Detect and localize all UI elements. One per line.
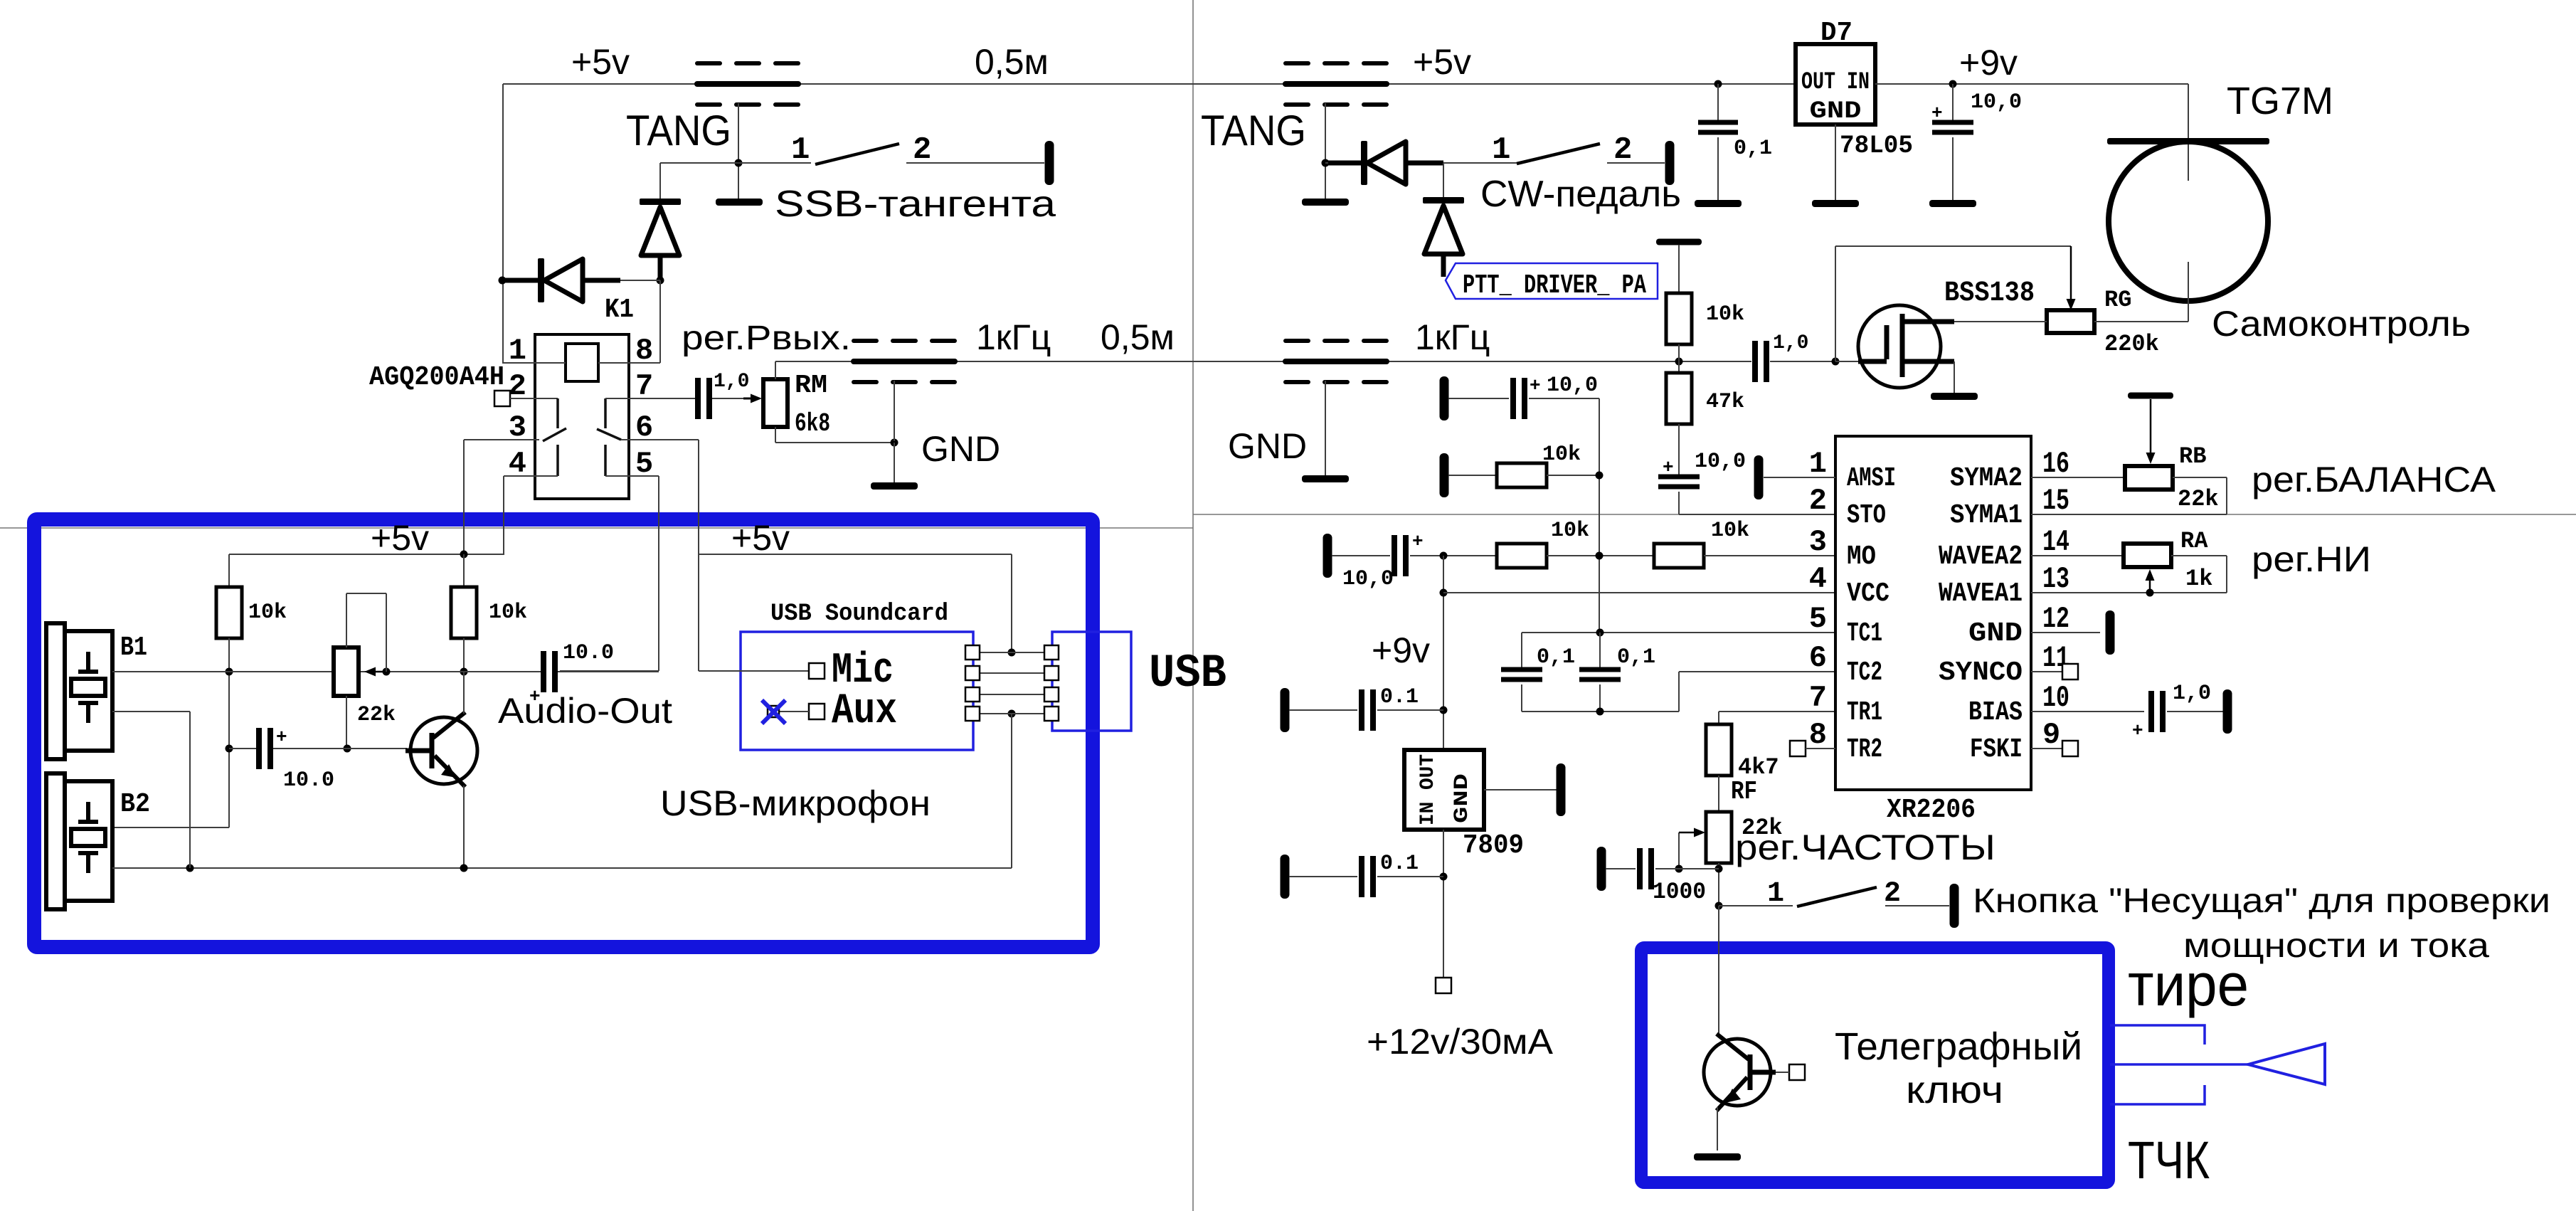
svg-text:D7: D7 [1820,18,1853,48]
svg-text:2: 2 [913,132,931,168]
svg-text:10,0: 10,0 [1342,567,1394,591]
svg-text:ТЧК: ТЧК [2128,1131,2210,1190]
svg-text:B2: B2 [120,789,150,820]
svg-text:RM: RM [795,371,827,400]
svg-text:13: 13 [2042,562,2069,596]
svg-text:CW-педаль: CW-педаль [1480,174,1681,215]
svg-text:10k: 10k [489,601,527,625]
svg-text:6k8: 6k8 [795,409,830,438]
svg-text:1: 1 [1809,447,1827,481]
svg-text:2: 2 [1809,484,1827,518]
svg-text:8: 8 [635,334,653,368]
svg-text:SYNCO: SYNCO [1939,657,2023,688]
svg-text:0,5м: 0,5м [1101,317,1175,357]
svg-text:RF: RF [1731,777,1757,806]
svg-text:рег.НИ: рег.НИ [2252,539,2371,579]
svg-text:0,1: 0,1 [1537,645,1575,670]
svg-text:+: + [2132,720,2143,741]
svg-text:10.0: 10.0 [283,768,334,793]
svg-text:GND: GND [1968,618,2023,649]
svg-text:9: 9 [2042,718,2060,752]
svg-text:10,0: 10,0 [1971,90,2022,115]
svg-text:10k: 10k [1706,302,1744,327]
svg-text:1,0: 1,0 [2173,682,2211,706]
svg-text:1: 1 [509,334,526,368]
svg-text:GND: GND [1810,98,1862,125]
svg-text:RG: RG [2104,287,2131,313]
svg-text:8: 8 [1809,718,1827,752]
svg-text:1кГц: 1кГц [976,317,1051,357]
svg-text:WAVEA2: WAVEA2 [1939,541,2023,572]
svg-text:5: 5 [1809,602,1827,636]
svg-text:Aux: Aux [832,687,897,736]
svg-text:ключ: ключ [1906,1069,2003,1111]
svg-text:+9v: +9v [1959,43,2018,83]
svg-text:USB Soundcard: USB Soundcard [770,601,948,628]
svg-text:+5v: +5v [1413,42,1471,82]
svg-text:GND: GND [1451,773,1473,823]
svg-text:0.1: 0.1 [1380,852,1419,876]
svg-text:MO: MO [1847,541,1876,572]
svg-text:12: 12 [2042,602,2069,636]
svg-text:IN OUT: IN OUT [1417,754,1439,825]
svg-text:0,5м: 0,5м [975,42,1049,82]
svg-text:B1: B1 [120,633,147,663]
svg-text:рег.ЧАСТОТЫ: рег.ЧАСТОТЫ [1735,827,1995,867]
svg-text:10,0: 10,0 [1547,374,1598,398]
svg-text:10: 10 [2042,681,2069,715]
svg-text:16: 16 [2042,447,2069,481]
svg-text:рег.Рвых.: рег.Рвых. [682,319,851,357]
svg-text:+: + [1530,375,1541,396]
svg-text:0.1: 0.1 [1380,685,1419,709]
svg-text:15: 15 [2042,484,2069,518]
svg-text:BSS138: BSS138 [1944,277,2035,310]
svg-text:+12v/30мА: +12v/30мА [1367,1022,1554,1062]
svg-text:1: 1 [791,132,810,168]
svg-text:1,0: 1,0 [1773,332,1808,354]
svg-text:4: 4 [1809,562,1827,596]
svg-text:WAVEA1: WAVEA1 [1939,578,2023,609]
svg-text:6: 6 [1809,641,1827,675]
svg-text:рег.БАЛАНСА: рег.БАЛАНСА [2252,460,2496,499]
svg-text:PTT_ DRIVER_ PA: PTT_ DRIVER_ PA [1463,270,1646,301]
svg-text:Телеграфный: Телеграфный [1835,1025,2082,1068]
svg-text:Самоконтроль: Самоконтроль [2212,304,2471,344]
svg-text:10k: 10k [248,601,287,625]
svg-text:2: 2 [1884,878,1901,910]
svg-text:BIAS: BIAS [1968,697,2023,728]
svg-text:2: 2 [509,369,526,403]
svg-text:TANG: TANG [626,107,731,154]
svg-text:22k: 22k [2178,486,2219,512]
svg-text:3: 3 [509,411,526,445]
svg-text:TANG: TANG [1201,107,1306,154]
svg-text:SYMA1: SYMA1 [1950,500,2023,531]
svg-text:VCC: VCC [1847,578,1889,609]
svg-text:TC1: TC1 [1847,618,1882,649]
svg-text:RA: RA [2180,528,2208,554]
svg-text:5: 5 [635,447,653,481]
svg-text:RB: RB [2179,443,2206,470]
svg-text:+5v: +5v [571,42,630,82]
svg-text:7809: 7809 [1463,830,1524,861]
svg-text:47k: 47k [1706,390,1744,414]
svg-text:GND: GND [1228,426,1307,466]
svg-text:+: + [1412,531,1424,552]
svg-text:10k: 10k [1542,443,1581,467]
svg-text:0,1: 0,1 [1617,645,1655,670]
svg-text:USB-микрофон: USB-микрофон [660,783,931,823]
svg-text:1: 1 [1767,878,1784,910]
svg-text:0,1: 0,1 [1734,137,1772,161]
svg-text:220k: 220k [2104,331,2159,357]
svg-text:FSKI: FSKI [1970,734,2023,765]
svg-text:OUT IN: OUT IN [1801,69,1870,96]
svg-text:+: + [276,726,287,748]
svg-text:1k: 1k [2185,566,2212,592]
svg-text:10.0: 10.0 [563,641,614,665]
svg-text:TC2: TC2 [1847,657,1882,688]
svg-text:2: 2 [1613,132,1632,168]
svg-text:6: 6 [635,411,653,445]
svg-text:AGQ200A4H: AGQ200A4H [369,362,504,393]
svg-text:+9v: +9v [1372,630,1430,670]
svg-text:22k: 22k [357,703,396,727]
svg-text:1,0: 1,0 [714,371,749,393]
svg-text:78L05: 78L05 [1840,132,1913,160]
svg-text:TG7M: TG7M [2227,80,2333,122]
svg-text:+5v: +5v [731,518,790,558]
svg-text:Кнопка "Несущая" для проверки: Кнопка "Несущая" для проверки [1973,882,2550,920]
svg-text:1000: 1000 [1653,879,1706,905]
svg-text:1кГц: 1кГц [1415,317,1490,357]
svg-text:3: 3 [1809,525,1827,559]
svg-text:K1: K1 [605,295,634,325]
svg-text:SYMA2: SYMA2 [1950,463,2023,494]
svg-text:тире: тире [2128,951,2249,1018]
svg-text:7: 7 [1809,681,1827,715]
svg-text:TR1: TR1 [1847,697,1882,728]
svg-text:10k: 10k [1711,519,1749,543]
svg-text:STO: STO [1847,500,1886,531]
svg-text:10,0: 10,0 [1695,450,1746,474]
svg-text:TR2: TR2 [1847,734,1882,765]
svg-text:4: 4 [509,447,526,481]
svg-text:USB: USB [1149,647,1226,700]
svg-text:14: 14 [2042,525,2069,559]
svg-text:1: 1 [1492,132,1510,168]
svg-text:10k: 10k [1551,519,1589,543]
svg-text:+: + [1663,457,1674,478]
svg-text:Audio-Out: Audio-Out [498,691,672,731]
svg-text:XR2206: XR2206 [1887,795,1976,825]
svg-text:AMSI: AMSI [1847,463,1896,494]
svg-text:GND: GND [921,429,1000,469]
svg-text:SSB-тангента: SSB-тангента [775,184,1056,225]
svg-text:+5v: +5v [371,518,429,558]
